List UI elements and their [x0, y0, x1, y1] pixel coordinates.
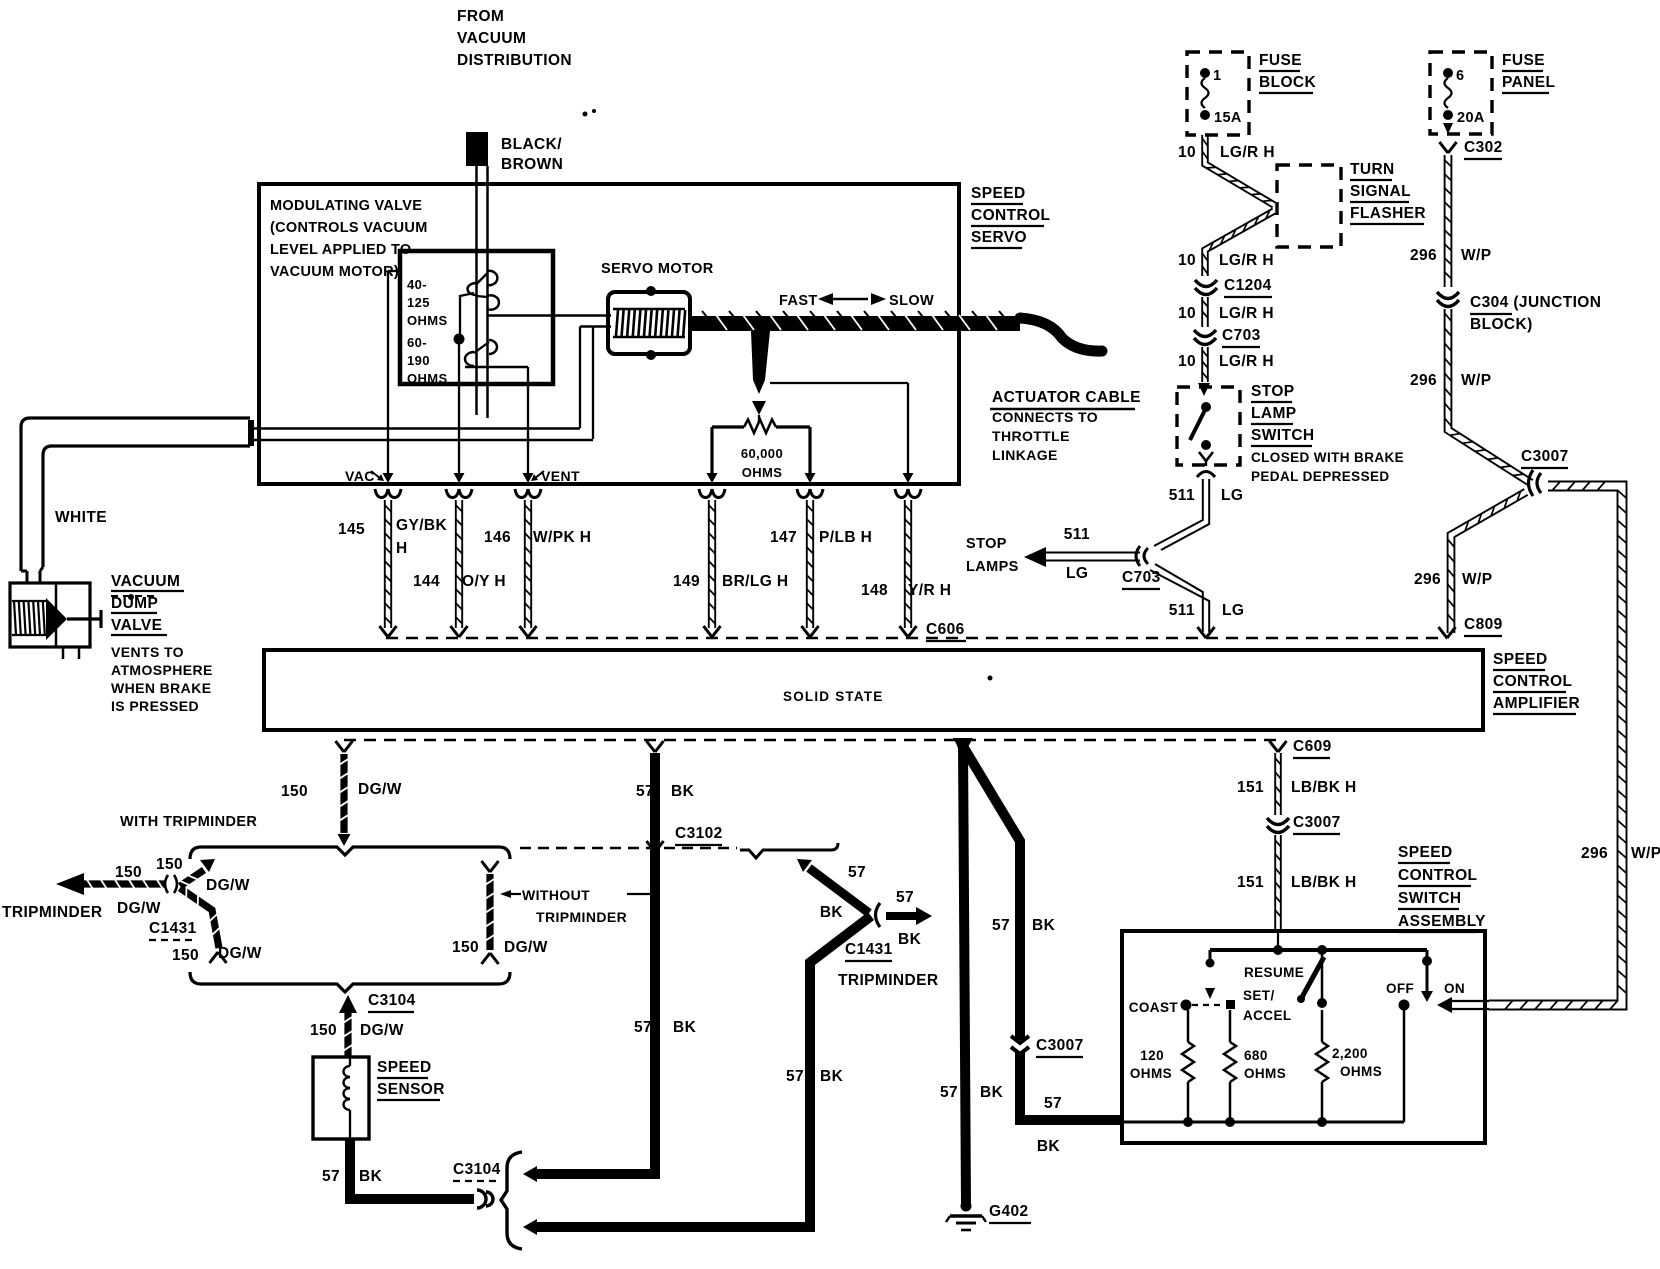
svg-text:296: 296: [1581, 845, 1608, 862]
svg-text:6: 6: [1456, 68, 1464, 84]
svg-text:SIGNAL: SIGNAL: [1350, 183, 1411, 200]
svg-text:ASSEMBLY: ASSEMBLY: [1398, 913, 1486, 930]
svg-text:SPEED: SPEED: [377, 1059, 432, 1076]
svg-text:SPEED: SPEED: [1398, 844, 1453, 861]
svg-text:LG: LG: [1221, 487, 1243, 504]
svg-text:LG: LG: [1222, 602, 1244, 619]
svg-text:W/P: W/P: [1631, 845, 1660, 862]
svg-text:BLOCK: BLOCK: [1259, 74, 1317, 91]
svg-text:57: 57: [634, 1019, 652, 1036]
svg-text:LB/BK H: LB/BK H: [1291, 779, 1357, 796]
svg-text:511: 511: [1169, 487, 1195, 504]
svg-text:RESUME: RESUME: [1244, 965, 1304, 980]
svg-text:LG/R H: LG/R H: [1219, 353, 1274, 370]
svg-text:VAC: VAC: [345, 468, 375, 484]
svg-text:C1431: C1431: [149, 920, 197, 937]
svg-text:VACUUM MOTOR): VACUUM MOTOR): [270, 264, 399, 280]
svg-text:ON: ON: [1444, 981, 1465, 996]
svg-text:C809: C809: [1464, 616, 1503, 633]
svg-text:LAMP: LAMP: [1251, 405, 1297, 422]
svg-text:COAST: COAST: [1129, 1000, 1179, 1015]
svg-text:57: 57: [940, 1084, 958, 1101]
svg-text:10: 10: [1178, 353, 1196, 370]
svg-text:DG/W: DG/W: [358, 781, 402, 798]
svg-text:C3007: C3007: [1036, 1037, 1084, 1054]
svg-text:LEVEL APPLIED TO: LEVEL APPLIED TO: [270, 242, 412, 258]
svg-text:FROM: FROM: [457, 8, 504, 25]
svg-text:TRIPMINDER: TRIPMINDER: [838, 972, 938, 989]
svg-text:AMPLIFIER: AMPLIFIER: [1493, 695, 1580, 712]
svg-text:LINKAGE: LINKAGE: [992, 447, 1058, 463]
svg-text:WITH TRIPMINDER: WITH TRIPMINDER: [120, 814, 257, 830]
svg-text:57: 57: [322, 1168, 340, 1185]
svg-text:144: 144: [413, 573, 440, 590]
svg-text:SPEED: SPEED: [1493, 651, 1548, 668]
svg-text:ACCEL: ACCEL: [1243, 1008, 1292, 1023]
svg-text:15A: 15A: [1214, 110, 1242, 126]
svg-text:150: 150: [115, 864, 142, 881]
svg-text:PANEL: PANEL: [1502, 74, 1555, 91]
svg-text:CONTROL: CONTROL: [971, 207, 1050, 224]
svg-text:120: 120: [1140, 1048, 1164, 1063]
svg-text:C3007: C3007: [1293, 814, 1341, 831]
svg-text:150: 150: [281, 783, 308, 800]
svg-text:FLASHER: FLASHER: [1350, 205, 1426, 222]
svg-text:60-: 60-: [407, 335, 427, 350]
svg-text:G402: G402: [989, 1203, 1029, 1220]
svg-text:THROTTLE: THROTTLE: [992, 428, 1070, 444]
svg-text:C1431: C1431: [845, 941, 893, 958]
svg-text:57: 57: [1044, 1095, 1062, 1112]
svg-text:151: 151: [1237, 874, 1264, 891]
svg-text:C609: C609: [1293, 738, 1332, 755]
svg-text:DG/W: DG/W: [206, 877, 250, 894]
svg-text:C3007: C3007: [1521, 448, 1569, 465]
svg-text:CONTROL: CONTROL: [1493, 673, 1572, 690]
svg-text:149: 149: [673, 573, 700, 590]
svg-text:SWITCH: SWITCH: [1398, 890, 1462, 907]
svg-text:SWITCH: SWITCH: [1251, 427, 1315, 444]
svg-text:1: 1: [1213, 68, 1221, 84]
svg-text:SERVO MOTOR: SERVO MOTOR: [601, 261, 714, 277]
svg-text:SET/: SET/: [1243, 988, 1275, 1003]
svg-text:10: 10: [1178, 144, 1196, 161]
svg-text:P/LB H: P/LB H: [819, 529, 872, 546]
svg-text:DUMP: DUMP: [111, 595, 158, 612]
svg-text:BK: BK: [820, 904, 844, 921]
svg-text:60,000: 60,000: [741, 446, 783, 461]
svg-text:OFF: OFF: [1386, 981, 1414, 996]
svg-text:BK: BK: [820, 1068, 844, 1085]
svg-text:SENSOR: SENSOR: [377, 1081, 445, 1098]
svg-text:C3104: C3104: [453, 1161, 501, 1178]
svg-text:LG: LG: [1066, 565, 1088, 582]
svg-text:OHMS: OHMS: [1340, 1064, 1382, 1079]
svg-text:296: 296: [1410, 247, 1437, 264]
svg-text:WHITE: WHITE: [55, 509, 107, 526]
svg-text:(CONTROLS VACUUM: (CONTROLS VACUUM: [270, 220, 428, 236]
svg-text:125: 125: [407, 295, 430, 310]
svg-text:C3104: C3104: [368, 992, 416, 1009]
svg-text:IS PRESSED: IS PRESSED: [111, 698, 199, 714]
svg-text:FAST: FAST: [779, 293, 818, 309]
svg-text:DG/W: DG/W: [117, 900, 161, 917]
svg-text:150: 150: [452, 939, 479, 956]
svg-text:40-: 40-: [407, 277, 427, 292]
svg-text:CONNECTS TO: CONNECTS TO: [992, 409, 1098, 425]
svg-text:DISTRIBUTION: DISTRIBUTION: [457, 52, 572, 69]
svg-text:BROWN: BROWN: [501, 156, 563, 173]
svg-text:VENTS TO: VENTS TO: [111, 644, 184, 660]
svg-text:WITHOUT: WITHOUT: [522, 887, 590, 903]
svg-text:C304 (JUNCTION: C304 (JUNCTION: [1470, 294, 1601, 311]
svg-text:20A: 20A: [1457, 110, 1485, 126]
svg-text:CONTROL: CONTROL: [1398, 867, 1477, 884]
svg-text:511: 511: [1169, 602, 1195, 619]
svg-text:57: 57: [896, 889, 914, 906]
svg-text:C703: C703: [1222, 327, 1261, 344]
svg-text:H: H: [396, 540, 408, 557]
svg-text:ACTUATOR CABLE: ACTUATOR CABLE: [992, 389, 1141, 406]
svg-text:VALVE: VALVE: [111, 617, 162, 634]
svg-text:VACUUM: VACUUM: [111, 573, 180, 590]
svg-text:BK: BK: [898, 931, 922, 948]
svg-text:LAMPS: LAMPS: [966, 559, 1019, 575]
svg-text:C606: C606: [926, 621, 965, 638]
svg-text:680: 680: [1244, 1048, 1268, 1063]
svg-text:W/P: W/P: [1461, 247, 1491, 264]
svg-text:BK: BK: [980, 1084, 1004, 1101]
svg-text:10: 10: [1178, 305, 1196, 322]
svg-text:OHMS: OHMS: [742, 465, 783, 480]
svg-text:OHMS: OHMS: [1130, 1066, 1172, 1081]
svg-text:WHEN BRAKE: WHEN BRAKE: [111, 680, 211, 696]
svg-text:TRIPMINDER: TRIPMINDER: [2, 904, 102, 921]
svg-text:296: 296: [1414, 571, 1441, 588]
svg-text:DG/W: DG/W: [504, 939, 548, 956]
svg-text:147: 147: [770, 529, 797, 546]
svg-text:2,200: 2,200: [1332, 1046, 1368, 1061]
svg-text:150: 150: [172, 947, 199, 964]
svg-text:FUSE: FUSE: [1502, 52, 1545, 69]
svg-text:57: 57: [848, 864, 866, 881]
svg-text:SPEED: SPEED: [971, 185, 1026, 202]
svg-text:C1204: C1204: [1224, 277, 1272, 294]
svg-text:BR/LG H: BR/LG H: [722, 573, 789, 590]
svg-text:DG/W: DG/W: [218, 945, 262, 962]
svg-text:296: 296: [1410, 372, 1437, 389]
svg-text:C3102: C3102: [675, 825, 723, 842]
svg-text:BK: BK: [671, 783, 695, 800]
svg-text:MODULATING VALVE: MODULATING VALVE: [270, 198, 422, 214]
svg-text:BK: BK: [673, 1019, 697, 1036]
svg-text:BLACK/: BLACK/: [501, 136, 562, 153]
svg-text:STOP: STOP: [1251, 383, 1295, 400]
svg-text:LB/BK H: LB/BK H: [1291, 874, 1357, 891]
svg-text:OHMS: OHMS: [407, 313, 448, 328]
svg-text:151: 151: [1237, 779, 1264, 796]
svg-text:150: 150: [156, 856, 183, 873]
svg-text:OHMS: OHMS: [407, 371, 448, 386]
svg-text:145: 145: [338, 521, 365, 538]
svg-text:TURN: TURN: [1350, 161, 1395, 178]
svg-text:DG/W: DG/W: [360, 1022, 404, 1039]
svg-text:Y/R H: Y/R H: [908, 582, 951, 599]
svg-text:57: 57: [992, 917, 1010, 934]
svg-text:146: 146: [484, 529, 511, 546]
svg-text:LG/R H: LG/R H: [1219, 252, 1274, 269]
svg-text:BLOCK): BLOCK): [1470, 316, 1533, 333]
svg-text:SOLID STATE: SOLID STATE: [783, 689, 883, 704]
svg-text:W/P: W/P: [1461, 372, 1491, 389]
svg-text:W/PK H: W/PK H: [533, 529, 591, 546]
svg-text:SLOW: SLOW: [889, 293, 934, 309]
svg-text:BK: BK: [1037, 1138, 1061, 1155]
svg-text:LG/R H: LG/R H: [1220, 144, 1275, 161]
svg-text:LG/R H: LG/R H: [1219, 305, 1274, 322]
svg-text:W/P: W/P: [1462, 571, 1492, 588]
svg-text:BK: BK: [1032, 917, 1056, 934]
svg-text:190: 190: [407, 353, 430, 368]
svg-text:ATMOSPHERE: ATMOSPHERE: [111, 662, 213, 678]
svg-text:C302: C302: [1464, 139, 1503, 156]
svg-text:VENT: VENT: [541, 468, 580, 484]
svg-text:148: 148: [861, 582, 888, 599]
svg-text:STOP: STOP: [966, 536, 1007, 552]
svg-text:57: 57: [786, 1068, 804, 1085]
svg-text:O/Y H: O/Y H: [462, 573, 506, 590]
svg-text:BK: BK: [359, 1168, 383, 1185]
svg-text:10: 10: [1178, 252, 1196, 269]
svg-text:57: 57: [636, 783, 654, 800]
svg-text:OHMS: OHMS: [1244, 1066, 1286, 1081]
svg-text:SERVO: SERVO: [971, 229, 1027, 246]
svg-text:150: 150: [310, 1022, 337, 1039]
svg-text:VACUUM: VACUUM: [457, 30, 526, 47]
svg-text:FUSE: FUSE: [1259, 52, 1302, 69]
svg-text:511: 511: [1064, 526, 1090, 543]
svg-text:TRIPMINDER: TRIPMINDER: [536, 909, 627, 925]
svg-text:PEDAL DEPRESSED: PEDAL DEPRESSED: [1251, 469, 1390, 484]
svg-text:GY/BK: GY/BK: [396, 517, 447, 534]
svg-text:CLOSED WITH BRAKE: CLOSED WITH BRAKE: [1251, 450, 1404, 465]
